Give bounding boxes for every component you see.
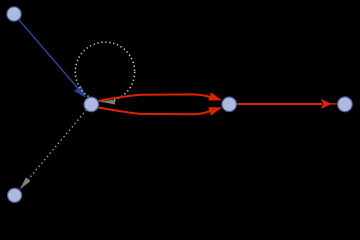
dotted gray edge B to E [28, 110, 87, 181]
arrowhead gray self-loop [100, 100, 116, 105]
node B center [84, 97, 99, 112]
node E bottom-left [8, 188, 22, 202]
self-loop dotted circle on B [75, 42, 134, 101]
node C middle-right [222, 97, 237, 112]
arrowhead blue at B [74, 85, 86, 98]
arrowhead red at D [321, 99, 332, 109]
wire: blue edge A to B [19, 20, 78, 89]
arrowhead red upper at C [208, 92, 222, 100]
red straight edge C to D [237, 103, 323, 105]
arrowhead gray at E [20, 177, 31, 189]
arrowhead red lower at C [208, 107, 222, 115]
node D right [338, 97, 353, 112]
red thin segment into node D [331, 103, 338, 105]
node A top-left [7, 7, 21, 21]
red curved edge B to C upper [99, 94, 212, 101]
red curved edge B to C lower [99, 108, 212, 115]
